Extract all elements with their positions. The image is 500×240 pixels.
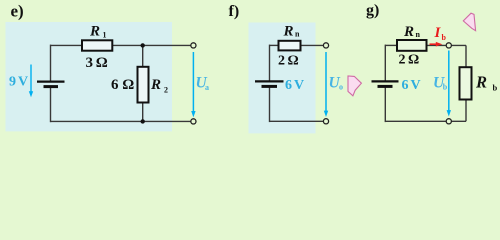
svg-text:6 Ω: 6 Ω bbox=[111, 77, 134, 93]
battery e: short plate bbox=[44, 85, 59, 88]
wire: f bottom bbox=[270, 120, 324, 122]
wire: e bottom bbox=[51, 120, 191, 122]
junction node top bbox=[141, 43, 145, 47]
callout arrow (pink, pointing left) for g bbox=[463, 13, 475, 31]
battery f: long plate bbox=[255, 80, 284, 82]
svg-text:R: R bbox=[150, 77, 161, 93]
wire: g top left segment bbox=[385, 44, 397, 46]
wire: g right upper bbox=[465, 45, 467, 67]
svg-text:6 V: 6 V bbox=[285, 78, 304, 93]
svg-text:9 V: 9 V bbox=[9, 75, 28, 90]
wire: f top right segment bbox=[301, 44, 324, 46]
svg-text:n: n bbox=[416, 30, 421, 39]
wire: g top right segment bbox=[427, 44, 467, 46]
svg-text:R: R bbox=[403, 24, 414, 40]
voltage arrow Uo (blue, down) bbox=[324, 52, 328, 117]
wire: g left lower bbox=[384, 86, 386, 122]
wire: g left upper bbox=[384, 45, 386, 82]
svg-text:R: R bbox=[283, 24, 294, 40]
svg-text:a: a bbox=[205, 83, 209, 92]
EMF arrow (blue, down) beside battery e bbox=[29, 65, 33, 98]
svg-text:o: o bbox=[339, 82, 343, 91]
terminal bottom (circuit e) bbox=[191, 119, 196, 124]
battery f: short plate bbox=[262, 85, 278, 88]
terminal bottom (circuit f) bbox=[323, 119, 328, 124]
voltage arrow Ub (blue, down) bbox=[447, 51, 451, 117]
svg-text:I: I bbox=[434, 25, 442, 41]
terminal top (circuit g) bbox=[446, 43, 451, 48]
wire: e left (battery branch) upper bbox=[50, 45, 52, 82]
wire: f top left segment bbox=[270, 44, 279, 46]
resistor R2 (box) bbox=[138, 67, 149, 103]
callout arrow (pink, pointing right) for f bbox=[348, 76, 361, 96]
resistor R1 (box) bbox=[82, 40, 112, 50]
terminal top (circuit f) bbox=[323, 43, 328, 48]
svg-text:n: n bbox=[295, 30, 300, 39]
svg-text:1: 1 bbox=[103, 31, 107, 40]
voltage arrow Ua (blue, down) bbox=[191, 52, 195, 117]
resistor Rb (box) bbox=[460, 67, 472, 99]
wire: g bottom bbox=[385, 120, 466, 122]
svg-text:e): e) bbox=[11, 2, 24, 21]
terminal bottom (circuit g) bbox=[446, 119, 451, 124]
wire: R2 branch upper bbox=[142, 45, 144, 66]
wire: f left lower bbox=[269, 86, 271, 122]
current arrow Ib (red, right) bbox=[430, 42, 443, 47]
svg-text:6 V: 6 V bbox=[402, 78, 421, 93]
battery e: long plate bbox=[37, 80, 65, 82]
wire: e left (battery branch) lower bbox=[50, 86, 52, 122]
wire: e top bbox=[51, 44, 191, 46]
svg-text:3 Ω: 3 Ω bbox=[86, 55, 108, 71]
svg-text:f): f) bbox=[229, 3, 240, 20]
svg-text:2: 2 bbox=[164, 86, 168, 95]
svg-text:2 Ω: 2 Ω bbox=[399, 53, 420, 68]
svg-text:b: b bbox=[493, 83, 498, 93]
svg-text:R: R bbox=[475, 73, 487, 92]
svg-text:g): g) bbox=[366, 2, 379, 19]
panel behind circuit e bbox=[6, 22, 173, 131]
battery g: long plate bbox=[372, 80, 399, 82]
resistor Rn (f box) bbox=[279, 41, 301, 51]
terminal top (circuit e) bbox=[191, 43, 196, 48]
panel behind circuit f bbox=[249, 23, 316, 134]
wire: f left upper bbox=[269, 45, 271, 82]
svg-text:b: b bbox=[442, 33, 447, 42]
wire: R2 branch lower bbox=[142, 103, 144, 122]
junction node bottom bbox=[141, 119, 145, 123]
wire: g right lower bbox=[465, 100, 467, 122]
svg-text:R: R bbox=[89, 24, 100, 40]
resistor Rn (g box) bbox=[397, 40, 427, 51]
svg-text:2 Ω: 2 Ω bbox=[278, 54, 299, 69]
svg-text:b: b bbox=[443, 83, 448, 92]
battery g: short plate bbox=[378, 85, 393, 88]
